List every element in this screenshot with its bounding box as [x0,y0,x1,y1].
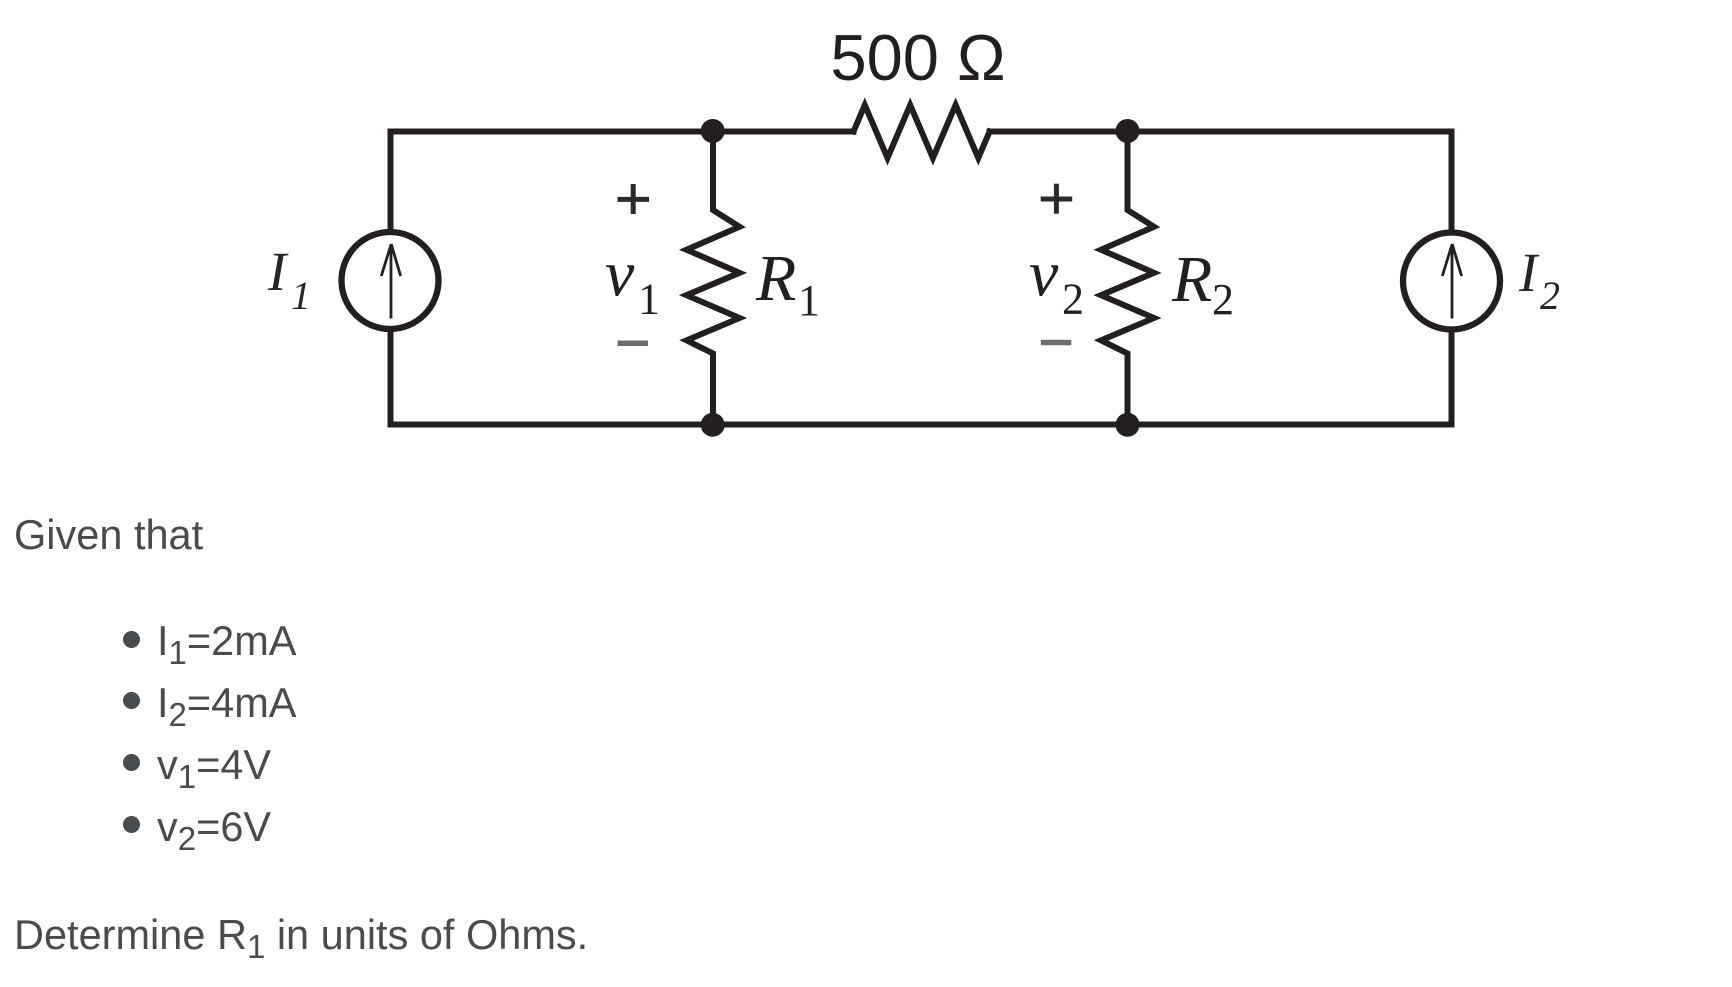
plus sign v1 [618,184,650,214]
svg-text:2: 2 [1062,275,1084,324]
current source I1 (circle) [342,232,439,329]
paragraph: Given that [14,514,203,556]
svg-text:I: I [267,241,289,302]
node dot bottom-right [1116,413,1140,437]
wire: right side lower lead [1449,334,1455,425]
resistor R1 (vertical zigzag with leads) [687,132,740,425]
node dot top-left (node A) [701,119,725,143]
svg-text:R: R [1171,243,1212,316]
svg-text:R: R [755,242,796,315]
svg-text:v: v [605,238,635,311]
svg-text:1: 1 [798,276,820,325]
resistor 500 ohm (horizontal zigzag) [854,105,990,158]
bullet list [123,631,140,648]
svg-text:v: v [1029,238,1059,311]
wire: right side upper lead [1449,132,1455,230]
svg-text:2: 2 [1540,273,1560,318]
arrow inside I2 [1442,244,1461,319]
svg-text:I: I [1518,242,1540,303]
arrow inside I1 [381,244,400,319]
wire: top-left horizontal segment [391,129,854,135]
wire: left side upper lead [388,132,394,230]
svg-text:2: 2 [1212,275,1234,324]
plus sign v2 [1041,184,1073,214]
svg-text:1: 1 [291,273,311,318]
wire: top-right horizontal segment [990,129,1452,135]
current source I2 (circle) [1403,233,1500,330]
minus sign v1 [618,341,649,347]
resistor R2 (vertical zigzag with leads) [1101,132,1154,425]
minus sign v2 [1041,340,1072,346]
wire: bottom horizontal [391,422,1452,428]
svg-text:1: 1 [638,275,660,324]
svg-text:500 Ω: 500 Ω [830,21,1005,94]
wire: left side lower lead [388,333,394,425]
node dot bottom-left [701,413,725,437]
node dot top-right (node B) [1116,119,1140,143]
circuit schematic figure [0,0,1732,500]
paragraph: Determine R1 [14,914,588,956]
